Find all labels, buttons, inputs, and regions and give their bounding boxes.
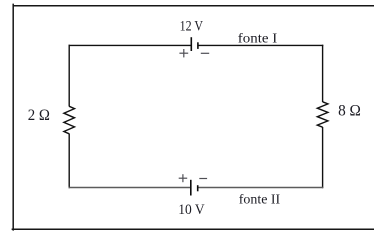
svg-text:8 Ω: 8 Ω [338, 103, 361, 120]
battery fonte II minus sign [199, 178, 207, 180]
battery fonte I short plate (-) [197, 42, 199, 49]
svg-text:10 V: 10 V [178, 202, 205, 218]
svg-text:2 Ω: 2 Ω [28, 107, 50, 124]
battery fonte II long plate (+) [190, 180, 192, 196]
wire left upper (top-left node down to resistor R1) [68, 45, 70, 107]
wire bottom-right (battery fonte II - to node) [198, 187, 324, 189]
wire left lower (resistor R1 to bottom-left node) [68, 134, 70, 189]
resistor R2 8 ohm (right zigzag) [317, 102, 328, 127]
resistor R1 2 ohm (left zigzag) [64, 106, 75, 134]
wire top-left (node to battery fonte I +) [69, 44, 192, 46]
svg-text:fonte I: fonte I [238, 31, 278, 46]
battery fonte I long plate (+) [190, 37, 192, 51]
wire bottom-left (node to battery fonte II +) [69, 187, 191, 189]
wire top-right (battery fonte I - to node) [198, 44, 323, 46]
svg-text:fonte II: fonte II [239, 193, 281, 208]
battery fonte I minus sign [201, 52, 209, 54]
wire right upper (top-right node down to resistor R2) [322, 45, 324, 102]
battery fonte I plus sign [179, 49, 188, 57]
battery fonte II plus sign [179, 174, 188, 182]
wire right lower (resistor R2 to bottom-right node) [322, 127, 324, 188]
svg-text:12 V: 12 V [180, 18, 204, 34]
battery fonte II short plate (-) [197, 185, 199, 191]
